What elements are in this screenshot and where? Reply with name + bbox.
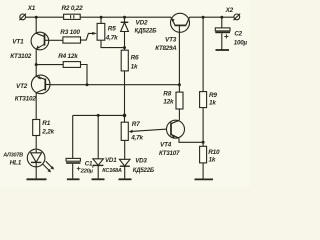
svg-text:R3 100: R3 100	[60, 29, 80, 36]
svg-text:R8: R8	[163, 90, 171, 97]
svg-text:4,7k: 4,7k	[130, 134, 143, 141]
terminal X2	[234, 14, 241, 21]
svg-text:X2: X2	[225, 7, 234, 14]
resistor R6	[121, 48, 128, 116]
svg-text:КТ3107: КТ3107	[159, 150, 180, 157]
resistor R1	[33, 120, 40, 136]
ground VD1	[92, 178, 105, 180]
wire R4 right to collector bus	[81, 65, 88, 85]
svg-text:R1: R1	[42, 120, 50, 127]
svg-text:R9: R9	[209, 92, 217, 99]
svg-text:12k: 12k	[163, 99, 174, 106]
node junction R9 top	[202, 16, 205, 19]
wire C1 top lead	[72, 115, 74, 158]
node junction VT3 base / R8	[178, 83, 181, 86]
svg-text:VD2: VD2	[136, 20, 148, 27]
resistor R9	[200, 17, 207, 142]
terminal X1	[19, 14, 26, 21]
svg-text:+: +	[224, 31, 229, 41]
svg-text:VT4: VT4	[160, 141, 172, 148]
svg-text:С1: С1	[85, 161, 93, 168]
svg-text:R7: R7	[132, 121, 140, 128]
svg-text:4,7k: 4,7k	[105, 34, 118, 41]
resistor R10	[200, 142, 207, 178]
svg-text:КД522Б: КД522Б	[135, 28, 158, 35]
wire reference bus (y115)	[73, 114, 125, 116]
resistor R5 (trimmer)	[97, 17, 105, 40]
wire R1 to HL1	[35, 136, 37, 151]
wire VT1 emitter to node	[35, 49, 37, 65]
svg-text:X1: X1	[27, 5, 36, 12]
ground R10	[195, 178, 214, 180]
svg-text:VD1: VD1	[105, 157, 117, 164]
wire node to R4	[36, 64, 63, 66]
transistor VT3	[171, 13, 190, 84]
resistor R7 (trimmer)	[121, 115, 128, 140]
resistor R4	[63, 62, 80, 68]
node junction R5/VD2/R6	[123, 46, 126, 49]
wire VT1 collector to R3	[49, 39, 63, 41]
ground HL1	[27, 178, 47, 180]
svg-text:R10: R10	[208, 149, 220, 156]
svg-text:R2 0,22: R2 0,22	[62, 5, 84, 12]
wire R5 bottom to VD2 node	[101, 40, 125, 47]
node junction VT4 emitter / R9 / R10	[202, 141, 205, 144]
diode VD2	[121, 17, 129, 47]
node junction R5 top	[100, 16, 103, 19]
svg-text:HL1: HL1	[10, 159, 22, 166]
svg-text:1k: 1k	[209, 156, 216, 163]
resistor R3	[63, 37, 81, 43]
ground C1	[67, 178, 80, 180]
node junction VD1 top	[97, 114, 100, 117]
svg-text:R5: R5	[108, 26, 116, 33]
node junction VT1 emitter / VT2 base / R4	[35, 63, 38, 66]
ground C2	[216, 49, 230, 51]
svg-text:R6: R6	[131, 55, 139, 62]
svg-text:100µ: 100µ	[234, 40, 248, 47]
transistor VT1	[31, 32, 49, 50]
wire VT2 emitter to R1	[35, 93, 37, 120]
wire top rail VT3 collector to X2	[189, 16, 234, 18]
resistor R8	[176, 85, 183, 121]
svg-text:КТ829А: КТ829А	[155, 45, 177, 52]
capacitor C2	[215, 17, 230, 49]
node junction R4/VT2 collector bus	[86, 83, 89, 86]
resistor R2	[64, 14, 81, 19]
zener diode VD1	[93, 115, 104, 178]
node junction C2 top	[220, 16, 223, 19]
capacitor C1	[66, 158, 80, 178]
svg-text:VD3: VD3	[135, 158, 147, 165]
node junction X1/VT1 base	[35, 16, 38, 19]
svg-text:220µ: 220µ	[80, 168, 94, 174]
wire R3 to R5 wiper arrow	[81, 32, 97, 40]
svg-text:2,2k: 2,2k	[41, 129, 54, 136]
ground VD3	[119, 178, 132, 180]
node junction VD2 top	[123, 16, 126, 19]
wire VT2 base lead	[35, 65, 37, 77]
svg-text:КС168А: КС168А	[102, 168, 122, 174]
node junction R6/R7/bus	[123, 114, 127, 118]
svg-text:1k: 1k	[131, 64, 138, 71]
svg-text:КТ3102: КТ3102	[10, 53, 32, 60]
svg-text:VT3: VT3	[165, 36, 177, 43]
diode VD3	[119, 159, 130, 178]
wiper R7 to VT4 base	[129, 129, 171, 133]
svg-text:C2: C2	[234, 31, 242, 38]
svg-text:КД522Б: КД522Б	[133, 168, 155, 174]
wire VT2 collector bus to VT3 base	[50, 84, 179, 86]
wire top rail X1 to R2	[26, 16, 64, 18]
svg-text:КТ3102: КТ3102	[15, 96, 37, 103]
svg-text:1k: 1k	[209, 100, 216, 107]
svg-text:R4 12k: R4 12k	[58, 53, 78, 60]
wire top rail R2 to VT3 emitter	[80, 16, 171, 18]
svg-text:VT1: VT1	[12, 39, 24, 46]
wire R7 bottom to VD3	[124, 140, 126, 159]
LED HL1	[27, 149, 54, 178]
transistor VT4	[167, 120, 204, 142]
wire VT1 base lead	[35, 17, 37, 33]
svg-text:АЛ307В: АЛ307В	[2, 152, 23, 158]
transistor VT2	[31, 75, 50, 94]
svg-text:VT2: VT2	[16, 83, 28, 90]
